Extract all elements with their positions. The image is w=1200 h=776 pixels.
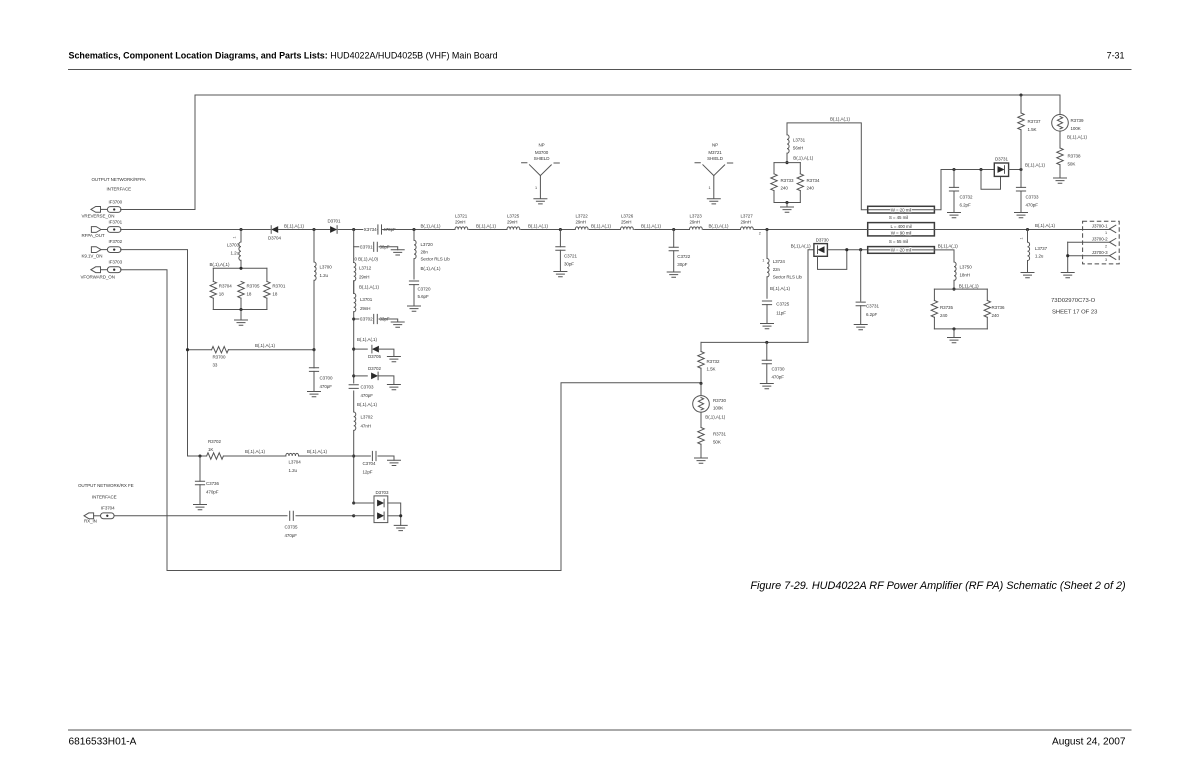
svg-text:12pF: 12pF — [363, 470, 373, 475]
svg-text:470pF: 470pF — [361, 393, 374, 398]
svg-text:29nH: 29nH — [455, 220, 465, 225]
svg-text:L3723: L3723 — [690, 214, 703, 219]
svg-text:R3733: R3733 — [781, 178, 794, 183]
svg-text:L3722: L3722 — [576, 214, 589, 219]
inductor L3722 29nH (bus) — [575, 214, 589, 231]
capacitor C3731 6.2pF — [854, 250, 879, 330]
capacitor C3702 33pF to gnd — [352, 314, 404, 327]
svg-text:L3726: L3726 — [621, 214, 634, 219]
svg-text:B(,1),A(,1): B(,1),A(,1) — [210, 262, 230, 267]
connector IF3700 VREVERSE_ON — [82, 200, 123, 219]
svg-text:C3733: C3733 — [1026, 195, 1039, 200]
svg-text:K9.1V_ON: K9.1V_ON — [82, 254, 103, 259]
microstrip W=20mil (bottom) — [868, 247, 935, 254]
svg-text:240: 240 — [940, 313, 948, 318]
svg-text:3: 3 — [1105, 258, 1107, 262]
svg-text:J3700-3: J3700-3 — [1092, 250, 1108, 255]
wire J3700 pins 2,3 to gnd — [1067, 242, 1069, 272]
svg-text:C3722: C3722 — [677, 254, 690, 259]
svg-text:INTERFACE: INTERFACE — [92, 495, 117, 500]
svg-text:OUTPUT NETWORK/RX FE: OUTPUT NETWORK/RX FE — [78, 483, 134, 488]
svg-text:29nH: 29nH — [359, 275, 369, 280]
svg-text:SHIELD: SHIELD — [534, 156, 551, 161]
ground below R3733/R3734 — [786, 203, 788, 208]
svg-text:B(,1),A(,1): B(,1),A(,1) — [307, 449, 327, 454]
svg-text:R3737: R3737 — [1028, 119, 1041, 124]
capacitor C3730 470pF — [760, 342, 785, 388]
wire — [338, 229, 377, 231]
capacitor C3736 470pF to gnd — [194, 454, 220, 509]
svg-text:6.2pF: 6.2pF — [960, 203, 971, 208]
connector IF3701 RFPA_OUT — [82, 220, 123, 238]
capacitor C3700 470pF — [309, 350, 333, 392]
svg-text:2: 2 — [1105, 244, 1107, 248]
wire — [383, 229, 868, 231]
inductor L3704 1.2u (series horizontal) — [286, 453, 354, 473]
svg-text:29nH: 29nH — [576, 220, 586, 225]
svg-text:470pF: 470pF — [206, 490, 219, 495]
svg-text:33: 33 — [213, 363, 218, 368]
connector IF3702 K9.1V_ON — [82, 239, 123, 258]
svg-text:L3727: L3727 — [741, 214, 754, 219]
svg-text:30pF: 30pF — [677, 262, 687, 267]
wire VFORWARD_ON long loop to R3732/R3730 node — [121, 270, 701, 571]
svg-text:100K: 100K — [713, 406, 723, 411]
svg-text:J3700-1: J3700-1 — [1092, 223, 1108, 228]
pin J3700-2 — [1068, 241, 1110, 243]
diode D3701 — [328, 219, 341, 234]
svg-text:C3704: C3704 — [363, 461, 376, 466]
svg-text:OUTPUT NETWORK/RFPA: OUTPUT NETWORK/RFPA — [92, 177, 146, 182]
svg-text:Figure 7-29. HUD4022A RF Power: Figure 7-29. HUD4022A RF Power Amplifier… — [750, 580, 1125, 592]
svg-text:L3737: L3737 — [1035, 246, 1048, 251]
svg-text:470pF: 470pF — [1026, 203, 1039, 208]
node rail R3733/R3734 — [785, 161, 788, 164]
svg-text:R3738: R3738 — [1068, 153, 1081, 158]
svg-text:R3735: R3735 — [940, 305, 953, 310]
svg-text:C3731: C3731 — [866, 304, 879, 309]
svg-text:L3720: L3720 — [421, 242, 434, 247]
svg-text:RX_IN: RX_IN — [84, 519, 97, 524]
svg-text:B(,1),A(,1): B(,1),A(,1) — [705, 415, 725, 420]
svg-text:L3712: L3712 — [359, 266, 372, 271]
wire main bus RFPA_OUT segment — [121, 229, 271, 231]
capacitor C3722 30pF to gnd — [667, 228, 691, 277]
inductor L3720 28n Sector RLS Lib — [413, 230, 451, 280]
inductor L3727 29nH (bus) — [740, 214, 754, 231]
svg-text:R3731: R3731 — [713, 432, 726, 437]
capacitor C3703 470pF (series in chain) — [348, 384, 374, 398]
svg-text:470pF: 470pF — [772, 375, 785, 380]
svg-text:1.5K: 1.5K — [1028, 127, 1037, 132]
svg-text:C3732: C3732 — [960, 195, 973, 200]
svg-text:1: 1 — [535, 186, 537, 190]
svg-text:B(,1),A(,1): B(,1),A(,1) — [1025, 163, 1045, 168]
wire RX_IN line — [114, 515, 354, 517]
diode D3702 to gnd — [352, 366, 400, 390]
capacitor C3725 11pF — [761, 301, 790, 329]
svg-text:470pF: 470pF — [285, 533, 298, 538]
svg-text:D3705: D3705 — [368, 354, 381, 359]
svg-text:1K: 1K — [208, 447, 213, 452]
wire main bus right segment to J3700 pin 1 — [934, 229, 1109, 231]
svg-text:J3700-2: J3700-2 — [1092, 237, 1108, 242]
svg-text:B(,1),A(,1): B(,1),A(,1) — [791, 244, 811, 249]
wire D3730 feed from R3732 node — [808, 250, 814, 343]
svg-text:30pF: 30pF — [564, 262, 574, 267]
svg-text:L3701: L3701 — [360, 297, 373, 302]
svg-text:C3720: C3720 — [418, 287, 431, 292]
node R3732/R3730 junction — [699, 382, 702, 385]
svg-text:L3724: L3724 — [773, 259, 786, 264]
inductor L3725 29nH (bus) — [507, 214, 521, 231]
svg-text:S = 55 mil: S = 55 mil — [889, 239, 908, 244]
svg-text:11pF: 11pF — [776, 310, 786, 315]
svg-text:B(,1),A(,1): B(,1),A(,1) — [284, 223, 304, 228]
svg-text:28n: 28n — [421, 250, 429, 255]
svg-text:SHIELD: SHIELD — [707, 156, 724, 161]
svg-text:B(,1),A(,1): B(,1),A(,1) — [1035, 223, 1055, 228]
resistor R3734 240 — [797, 163, 820, 203]
svg-text:240: 240 — [781, 186, 789, 191]
svg-text:L3703: L3703 — [227, 243, 240, 248]
inductor L3731 56nH — [786, 135, 806, 163]
svg-text:22n: 22n — [773, 267, 781, 272]
svg-text:IF3704: IF3704 — [101, 506, 115, 511]
svg-text:IF3701: IF3701 — [109, 220, 123, 225]
pin J3700-3 — [1068, 255, 1110, 257]
wire bottom rail — [774, 202, 800, 204]
svg-text:IF3700: IF3700 — [109, 200, 123, 205]
svg-text:B(,1),A(,1): B(,1),A(,1) — [255, 343, 275, 348]
svg-text:W = 20 mil: W = 20 mil — [891, 248, 912, 253]
node junction at chain — [352, 228, 355, 231]
inductor L3712 29nH — [352, 263, 371, 294]
svg-text:C3730: C3730 — [772, 367, 785, 372]
svg-text:7-31: 7-31 — [1107, 51, 1125, 61]
svg-text:C3721: C3721 — [564, 254, 577, 259]
svg-text:INTERFACE: INTERFACE — [107, 187, 132, 192]
svg-text:1.2u: 1.2u — [1035, 254, 1044, 259]
svg-text:B(,1),A(,1): B(,1),A(,1) — [830, 117, 850, 122]
inductor L3702 47nH — [348, 412, 373, 431]
svg-text:NP: NP — [712, 143, 718, 148]
resistor R3704 18 — [210, 268, 232, 309]
svg-text:0 B(,1),A(,0): 0 B(,1),A(,0) — [355, 257, 379, 262]
svg-text:1: 1 — [1020, 237, 1024, 239]
thermistor R3739 100K — [1052, 95, 1088, 148]
svg-text:R3700: R3700 — [213, 355, 226, 360]
svg-text:R3705: R3705 — [247, 284, 260, 289]
capacitor C3721 30pF to gnd — [554, 228, 578, 277]
svg-text:L3704: L3704 — [289, 460, 302, 465]
capacitor C3704 12pF to gnd — [352, 451, 400, 474]
svg-text:VFORWARD_ON: VFORWARD_ON — [81, 274, 115, 279]
svg-text:D3704: D3704 — [268, 236, 281, 241]
PAGE-FOOTER — [69, 730, 1132, 748]
diode D3731 (boxed) — [979, 157, 1021, 190]
resistor R3737 1.5K — [1018, 93, 1041, 169]
svg-text:1.5K: 1.5K — [707, 367, 716, 372]
resistor R3705 18 — [238, 281, 260, 309]
svg-text:B(,1),A(,1): B(,1),A(,1) — [959, 284, 979, 289]
resistor R3700 33 — [188, 347, 315, 368]
svg-text:L3721: L3721 — [455, 214, 468, 219]
thermistor R3730 100K — [693, 383, 727, 427]
svg-text:B(,1),A(,1): B(,1),A(,1) — [359, 285, 379, 290]
svg-text:R3734: R3734 — [807, 178, 820, 183]
PAGE-HEADER — [69, 51, 1132, 70]
svg-text:S = 45 mil: S = 45 mil — [889, 215, 908, 220]
svg-text:R3736: R3736 — [992, 305, 1005, 310]
svg-text:L3731: L3731 — [793, 138, 806, 143]
svg-text:August 24, 2007: August 24, 2007 — [1052, 737, 1126, 748]
connector IF3703 VFORWARD_ON — [81, 259, 123, 279]
svg-text:1.2u: 1.2u — [231, 251, 240, 256]
svg-text:B(,1),A(,1): B(,1),A(,1) — [770, 286, 790, 291]
shield M3721 — [695, 143, 733, 204]
svg-text:B(,1),A(,1): B(,1),A(,1) — [421, 266, 441, 271]
diode D3730 (boxed) — [814, 238, 868, 270]
svg-text:L = 400 mil: L = 400 mil — [890, 224, 911, 229]
svg-text:B(,1),A(,1): B(,1),A(,1) — [357, 402, 377, 407]
svg-text:1: 1 — [709, 186, 711, 190]
svg-text:240: 240 — [807, 186, 815, 191]
svg-text:73D02970C73-O: 73D02970C73-O — [1051, 298, 1096, 304]
connector IF3704 RX_IN — [84, 506, 115, 524]
svg-text:D3701: D3701 — [328, 219, 341, 224]
svg-text:IF3703: IF3703 — [109, 259, 123, 264]
resistor R3738 50K — [1054, 148, 1081, 183]
capacitor C3733 470pF — [1015, 168, 1039, 218]
inductor L3721 29nH (bus) — [455, 214, 469, 231]
svg-text:1: 1 — [762, 258, 764, 262]
wire R3732 top rail — [701, 341, 808, 343]
svg-text:B(,1),A(,1): B(,1),A(,1) — [528, 223, 548, 228]
svg-text:W = 90 mil: W = 90 mil — [891, 231, 912, 236]
svg-text:M3700: M3700 — [535, 150, 549, 155]
svg-text:1: 1 — [1105, 231, 1107, 235]
resistor R3731 50K — [695, 428, 727, 464]
svg-text:VREVERSE_ON: VREVERSE_ON — [82, 213, 115, 218]
svg-text:D3731: D3731 — [995, 157, 1008, 162]
svg-text:29nH: 29nH — [690, 220, 700, 225]
svg-text:Sector RLS Lib: Sector RLS Lib — [773, 274, 803, 279]
resistor R3732 1.5K — [698, 342, 720, 383]
svg-text:50K: 50K — [713, 440, 721, 445]
svg-text:RFPA_OUT: RFPA_OUT — [82, 233, 105, 238]
diode D3705 to gnd — [352, 345, 400, 361]
svg-text:Sector RLS Lib: Sector RLS Lib — [421, 257, 451, 262]
svg-text:C3725: C3725 — [776, 301, 789, 306]
wire microstrip top to D3731 line — [934, 170, 994, 210]
inductor L3726 25nH (bus) — [620, 214, 634, 231]
node junction at L3703 — [239, 228, 242, 231]
svg-text:C3735: C3735 — [285, 525, 298, 530]
svg-text:R3732: R3732 — [707, 359, 720, 364]
svg-text:18: 18 — [247, 292, 252, 297]
svg-text:L3700: L3700 — [320, 265, 333, 270]
svg-text:47nH: 47nH — [361, 424, 371, 429]
capacitor C3734 470pF (series) — [364, 225, 396, 234]
svg-text:1: 1 — [233, 236, 237, 238]
inductor L3750 18nH — [953, 262, 972, 289]
wire L3731 top link — [787, 123, 868, 210]
svg-text:W = 20 mil: W = 20 mil — [891, 207, 912, 212]
svg-text:B(,1),A(,1): B(,1),A(,1) — [357, 337, 377, 342]
capacitor C3720 5.6pF — [408, 281, 431, 311]
svg-text:6816533H01-A: 6816533H01-A — [69, 737, 137, 748]
dual diode D3703 — [352, 490, 407, 531]
svg-text:NP: NP — [538, 143, 544, 148]
svg-text:D3730: D3730 — [816, 238, 829, 243]
resistor R3735 240 — [931, 289, 953, 329]
inductor L3703 1.2u — [227, 230, 242, 269]
wire IF3700 to top bus — [121, 95, 195, 210]
svg-text:B(,1),A(,1): B(,1),A(,1) — [938, 244, 958, 249]
svg-text:56nH: 56nH — [793, 146, 803, 151]
svg-text:25nH: 25nH — [621, 220, 631, 225]
svg-text:SHEET 17 OF 23: SHEET 17 OF 23 — [1052, 310, 1097, 316]
svg-text:IF3702: IF3702 — [109, 239, 123, 244]
svg-text:R3739: R3739 — [1071, 118, 1084, 123]
svg-text:B(,1),A(,1): B(,1),A(,1) — [793, 156, 813, 161]
shield M3700 — [522, 143, 560, 204]
microstrip W=20mil (top) — [868, 206, 935, 213]
inductor L3701 29nH — [352, 293, 372, 311]
wire — [278, 229, 329, 231]
wire K9.1V_ON down — [121, 250, 188, 456]
svg-text:R3704: R3704 — [219, 284, 232, 289]
svg-text:R3730: R3730 — [713, 398, 726, 403]
svg-text:5.6pF: 5.6pF — [418, 294, 429, 299]
wire bottom rail — [213, 309, 267, 311]
svg-text:18nH: 18nH — [960, 272, 970, 277]
svg-text:470pF: 470pF — [320, 384, 333, 389]
svg-text:L3725: L3725 — [507, 214, 520, 219]
svg-text:C3703: C3703 — [361, 384, 374, 389]
microstrip L=400mil W=90mil (on bus) — [868, 223, 935, 236]
node rail R3735/R3736 — [952, 288, 955, 291]
svg-text:100K: 100K — [1071, 126, 1081, 131]
svg-text:C3736: C3736 — [206, 481, 219, 486]
svg-text:18: 18 — [272, 292, 277, 297]
svg-text:B(,1),A(,1): B(,1),A(,1) — [1067, 134, 1087, 139]
node junction at L3720 — [412, 228, 415, 231]
svg-text:B(,1),A(,1): B(,1),A(,1) — [245, 449, 265, 454]
svg-text:29nH: 29nH — [507, 220, 517, 225]
svg-text:C3701: C3701 — [360, 245, 373, 250]
ground below R network — [240, 310, 242, 321]
wire top bus — [195, 94, 1060, 96]
svg-text:B(,1),A(,1): B(,1),A(,1) — [421, 223, 441, 228]
svg-text:D3703: D3703 — [376, 490, 389, 495]
svg-text:18: 18 — [219, 292, 224, 297]
inductor L3700 1.2u — [313, 230, 332, 350]
svg-text:1.2u: 1.2u — [289, 468, 298, 473]
svg-text:C3700: C3700 — [320, 376, 333, 381]
svg-text:B(,1),A(,1): B(,1),A(,1) — [476, 223, 496, 228]
wire main left chain vertical — [353, 230, 355, 504]
capacitor C3701 30pF to gnd — [354, 242, 405, 255]
svg-text:240: 240 — [992, 313, 1000, 318]
ground below C3700 — [308, 392, 321, 397]
inductor L3737 1.2u — [1020, 228, 1048, 278]
capacitor C3735 470pF (series) — [285, 510, 298, 538]
svg-text:L3702: L3702 — [361, 415, 374, 420]
svg-text:Schematics, Component Location: Schematics, Component Location Diagrams,… — [69, 51, 498, 61]
resistor R3736 240 — [984, 289, 1005, 329]
svg-text:R3702: R3702 — [208, 439, 221, 444]
svg-text:B(,1),A(,1): B(,1),A(,1) — [709, 223, 729, 228]
inductor L3723 29nH (bus) — [689, 214, 703, 231]
svg-text:B(,1),A(,1): B(,1),A(,1) — [591, 223, 611, 228]
diode D3704 — [268, 226, 281, 241]
resistor R3701 18 — [264, 268, 286, 309]
svg-text:29nH: 29nH — [741, 220, 751, 225]
ground below R3735/R3736 — [953, 329, 955, 338]
resistor R3702 1K — [188, 439, 286, 459]
inductor L3724 22n Sector RLS Lib — [762, 228, 802, 298]
svg-text:29nH: 29nH — [360, 306, 370, 311]
svg-text:B(,1),A(,1): B(,1),A(,1) — [641, 223, 661, 228]
svg-text:C3734: C3734 — [364, 227, 377, 232]
capacitor C3732 6.2pF — [948, 168, 973, 218]
node junction at L3700 — [312, 228, 315, 231]
svg-text:D3702: D3702 — [368, 366, 381, 371]
resistor R3733 240 — [771, 163, 794, 203]
svg-text:6.2pF: 6.2pF — [866, 312, 877, 317]
wire bottom rail — [934, 328, 987, 330]
svg-text:1.2u: 1.2u — [320, 273, 329, 278]
svg-text:C3702: C3702 — [360, 317, 373, 322]
connector J3700 (dashed box) — [1068, 221, 1120, 264]
wire microstrip bottom to L3750 — [934, 250, 954, 262]
svg-text:2: 2 — [759, 231, 761, 235]
svg-text:L3750: L3750 — [960, 264, 973, 269]
svg-text:M3721: M3721 — [708, 150, 722, 155]
svg-text:R3701: R3701 — [272, 284, 285, 289]
svg-text:50K: 50K — [1068, 161, 1076, 166]
